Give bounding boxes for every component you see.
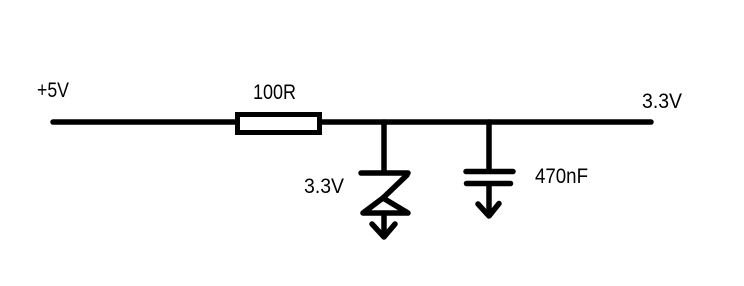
wire: zener branch [381, 122, 387, 171]
svg-text:3.3V: 3.3V [642, 90, 682, 113]
capacitor 470nF [466, 172, 513, 184]
svg-text:+5V: +5V [37, 79, 69, 102]
ground arrow under zener [372, 213, 395, 237]
resistor 100R [238, 115, 320, 133]
svg-text:3.3V: 3.3V [304, 175, 344, 198]
zener diode 3.3V [361, 173, 408, 213]
wire: +5V to 3.3V rail [53, 119, 651, 125]
ground arrow under capacitor [478, 186, 499, 216]
svg-text:100R: 100R [253, 81, 296, 104]
svg-text:470nF: 470nF [535, 165, 588, 188]
wire: capacitor branch [486, 122, 492, 171]
